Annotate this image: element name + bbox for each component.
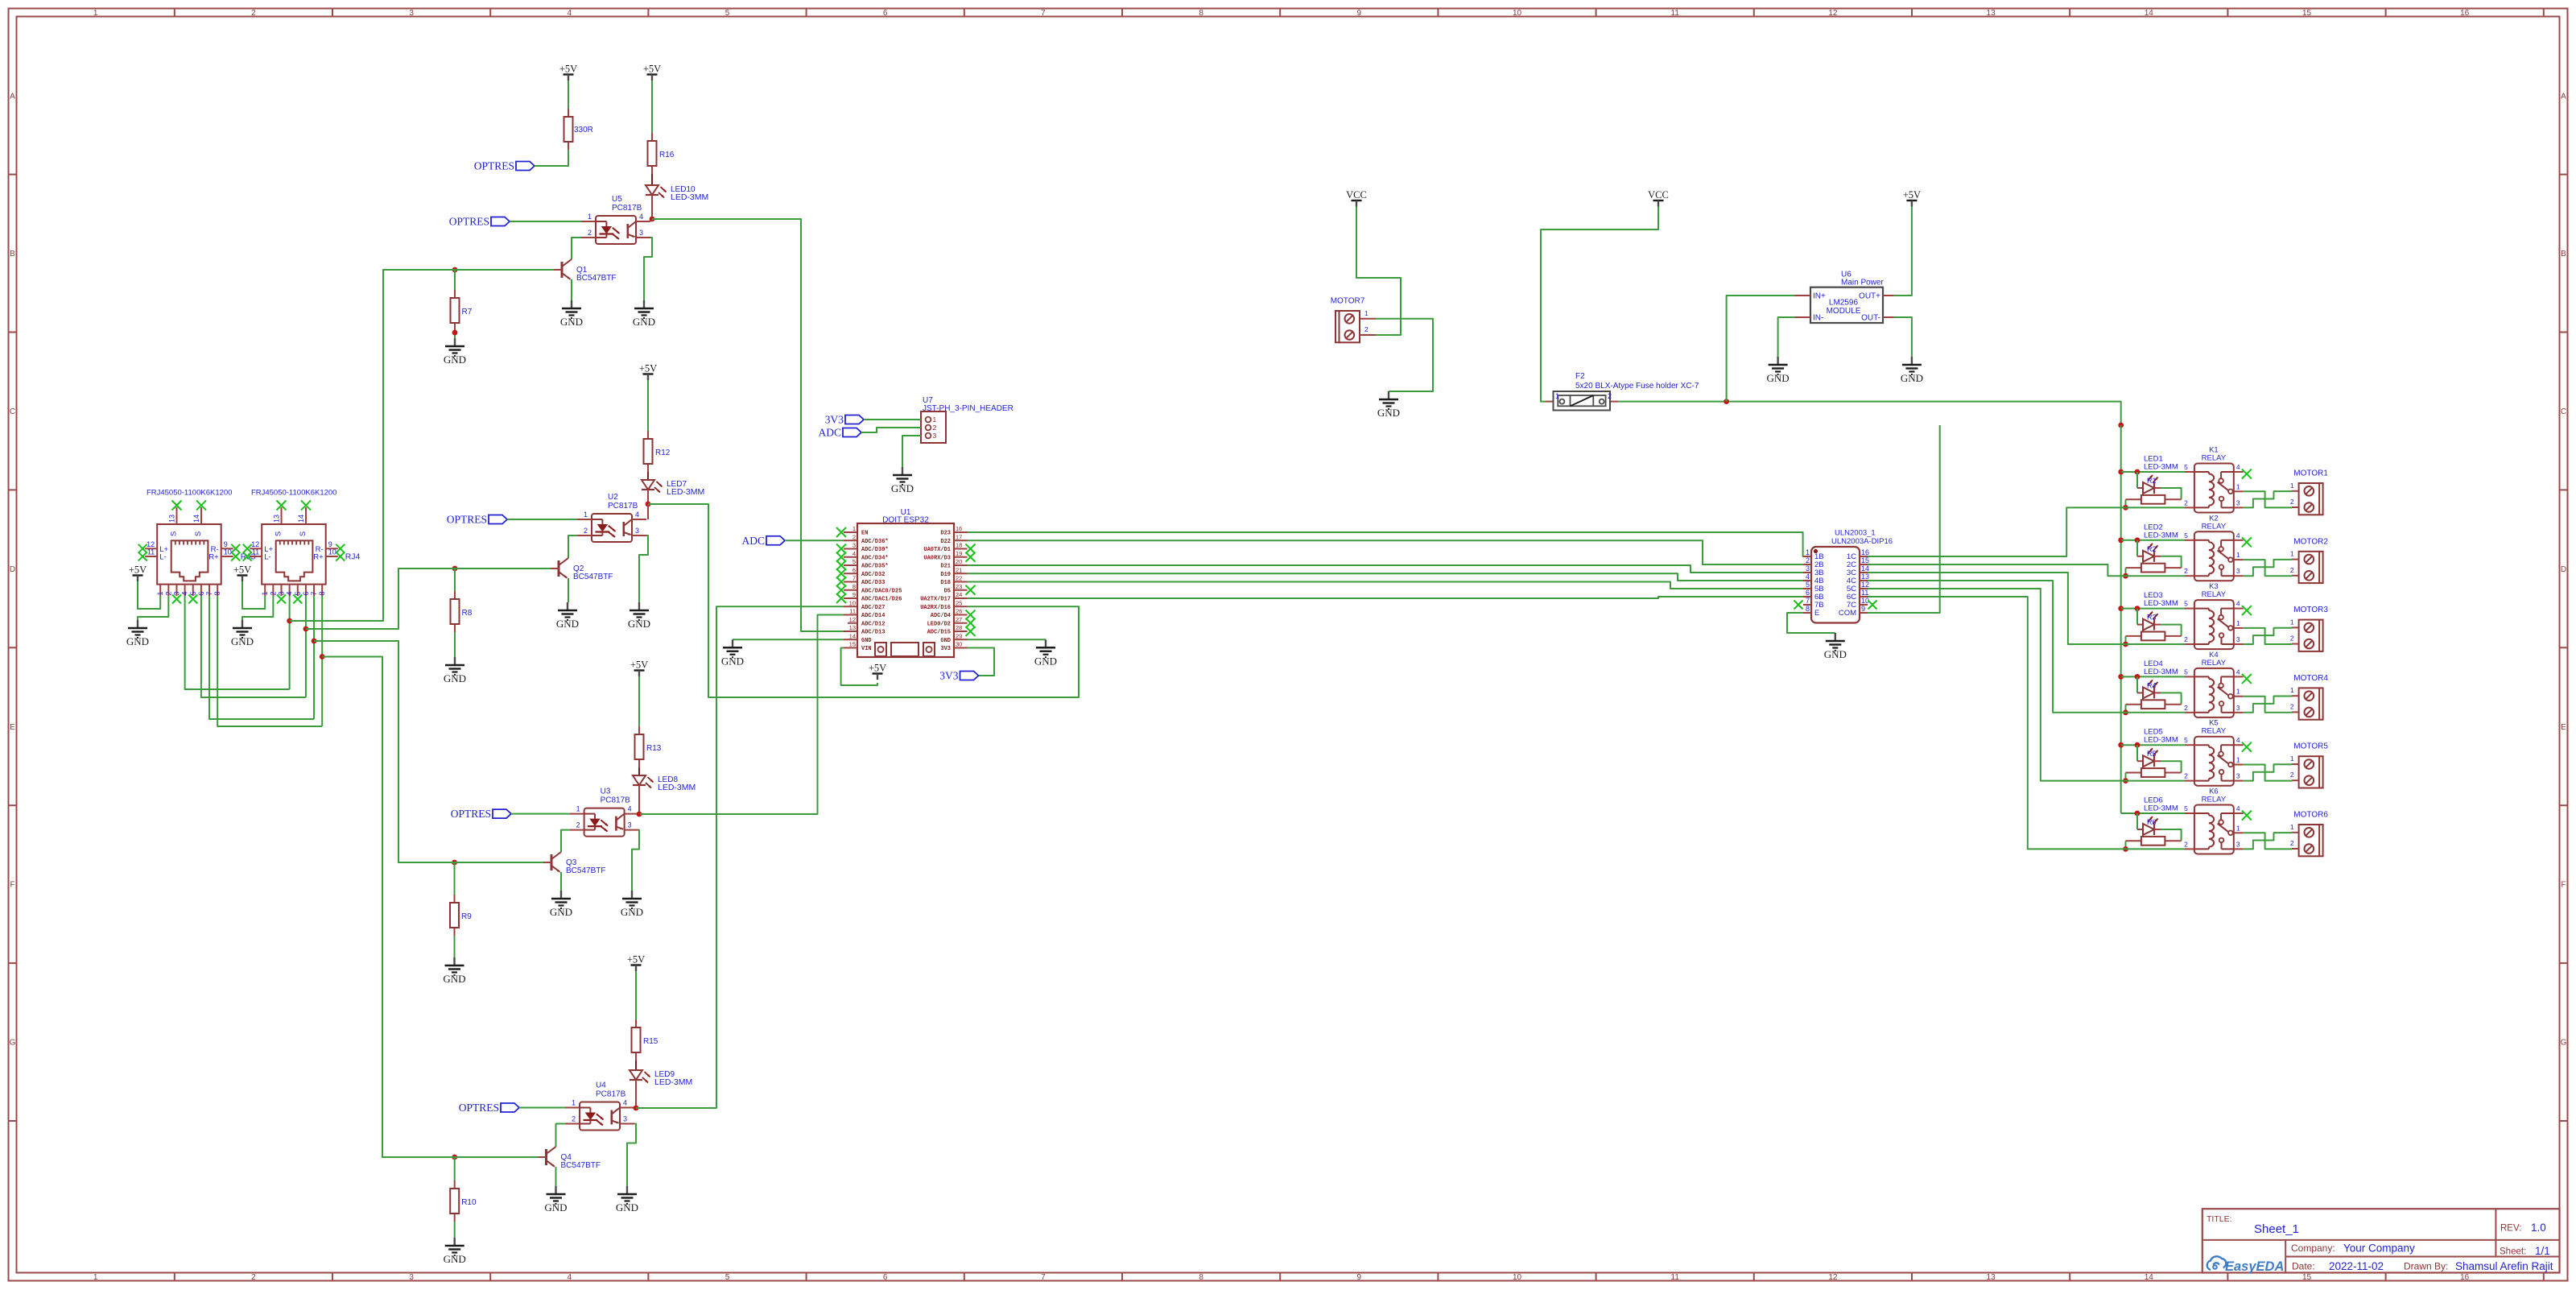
svg-text:OPTRES: OPTRES: [449, 216, 489, 228]
svg-text:9: 9: [1357, 9, 1362, 18]
svg-text:2: 2: [2290, 498, 2294, 506]
svg-text:S: S: [170, 531, 179, 536]
relay K3 RELAY: [2184, 582, 2252, 649]
svg-text:4: 4: [1806, 573, 1810, 581]
svg-text:Your Company: Your Company: [2343, 1242, 2415, 1255]
svg-text:GND: GND: [556, 618, 579, 630]
svg-text:GND: GND: [444, 354, 466, 366]
node rail row5: [2118, 742, 2124, 748]
svg-text:U2: U2: [608, 493, 618, 502]
svg-text:2: 2: [2290, 771, 2294, 779]
svg-text:1: 1: [1364, 309, 1368, 317]
connector MOTOR5: [2290, 742, 2328, 788]
wire: [638, 767, 640, 775]
ground (under R10): [444, 1238, 466, 1265]
wire: [454, 862, 456, 895]
svg-text:FRJ45050-1100K6K1200: FRJ45050-1100K6K1200: [251, 489, 337, 498]
resistor R13: [635, 726, 662, 767]
svg-text:OUT+: OUT+: [1859, 292, 1880, 301]
LED LED1 + resistor R1: [2123, 455, 2182, 511]
svg-text:5: 5: [294, 591, 302, 595]
svg-text:1: 1: [2290, 618, 2294, 626]
svg-text:EasyEDA: EasyEDA: [2225, 1259, 2284, 1274]
svg-text:4: 4: [181, 591, 189, 595]
svg-text:2: 2: [164, 591, 172, 595]
ground (ESP32 pin29): [1034, 639, 1057, 667]
svg-text:5: 5: [852, 558, 856, 565]
wire U6 OUT+ +5V: [1894, 207, 1912, 296]
svg-text:1: 1: [584, 511, 588, 519]
node Q3 base junction: [452, 860, 457, 866]
svg-text:5: 5: [2184, 668, 2188, 676]
wire: [561, 830, 570, 852]
resistor R7: [451, 290, 473, 331]
svg-text:GND: GND: [544, 1201, 567, 1214]
svg-text:10: 10: [224, 548, 232, 556]
svg-text:13: 13: [1987, 9, 1996, 18]
svg-text:10: 10: [1513, 9, 1522, 18]
svg-text:4: 4: [628, 805, 632, 813]
power VCC (main): [1541, 189, 1669, 402]
svg-text:16: 16: [956, 525, 962, 532]
svg-text:REV:: REV:: [2500, 1224, 2521, 1234]
svg-text:2: 2: [584, 527, 588, 535]
svg-text:LED-3MM: LED-3MM: [2144, 804, 2178, 813]
wire D23-1B: [968, 532, 1804, 556]
svg-text:14: 14: [297, 515, 305, 523]
wire U7 pin3 GND: [902, 436, 921, 467]
svg-text:12: 12: [1861, 581, 1869, 589]
svg-text:VCC: VCC: [1346, 189, 1367, 201]
svg-text:6: 6: [883, 9, 888, 18]
svg-text:9: 9: [852, 591, 856, 598]
svg-text:Date:: Date:: [2292, 1261, 2315, 1272]
svg-text:+5V: +5V: [630, 659, 648, 671]
relay K2 RELAY: [2184, 514, 2252, 581]
svg-text:GND: GND: [231, 635, 254, 647]
svg-text:2: 2: [2184, 704, 2188, 712]
svg-text:4: 4: [2236, 600, 2240, 608]
wire RJ3.4-RJ4.4: [185, 596, 290, 689]
wire U6 OUT- GND: [1894, 317, 1912, 357]
svg-text:11: 11: [147, 548, 155, 556]
svg-text:S: S: [299, 531, 308, 536]
svg-text:ADC/D39*: ADC/D39*: [861, 547, 889, 553]
svg-text:Company:: Company:: [2291, 1242, 2335, 1254]
connector RJ4 FRJ45050-1100K6K1200: [243, 489, 361, 604]
svg-text:GND: GND: [1377, 407, 1400, 419]
node U4 pin4 junction: [634, 1106, 639, 1111]
svg-text:LED-3MM: LED-3MM: [671, 192, 708, 202]
svg-text:GND: GND: [560, 316, 583, 328]
svg-text:GND: GND: [1034, 655, 1057, 667]
ground (RJ4): [231, 620, 254, 647]
wire K1.1-MOTOR1.2: [2244, 491, 2292, 507]
svg-text:E: E: [10, 723, 15, 732]
svg-text:ADC/DAC0/D25: ADC/DAC0/D25: [861, 588, 902, 594]
wire 3C-K3.2: [1868, 573, 2185, 644]
connector U7 JST-PH_3-PIN_HEADER: [921, 396, 1013, 443]
node U5 pin4 junction: [650, 217, 655, 222]
connector MOTOR3: [2290, 606, 2328, 651]
svg-text:UA0RX/D3: UA0RX/D3: [923, 555, 951, 561]
svg-text:A: A: [2561, 92, 2566, 101]
port ADC (ESP32 D36): [741, 535, 844, 547]
svg-text:3: 3: [277, 591, 285, 595]
svg-text:PC817B: PC817B: [601, 796, 631, 805]
power +5V (RJ4): [233, 564, 265, 610]
port OPTRES (U3 pin1): [451, 808, 570, 820]
wire row2 coil+ feed: [2121, 537, 2185, 543]
relay K5 RELAY: [2184, 719, 2252, 786]
svg-text:ADC/D33: ADC/D33: [861, 580, 885, 586]
svg-text:20: 20: [956, 558, 962, 565]
svg-text:LED-3MM: LED-3MM: [2144, 599, 2178, 608]
svg-text:2: 2: [1364, 325, 1368, 333]
svg-text:6: 6: [883, 1273, 888, 1282]
svg-text:5: 5: [2184, 600, 2188, 608]
port OPTRES (U4 pin1): [459, 1102, 565, 1114]
svg-text:9: 9: [224, 540, 228, 548]
svg-text:3: 3: [2236, 567, 2240, 575]
svg-text:14: 14: [192, 515, 200, 523]
svg-text:ADC/D27: ADC/D27: [861, 605, 885, 611]
wire: [242, 596, 273, 620]
wire RJ4.8-Q4 base: [320, 596, 539, 1157]
port 3V3 (U7): [825, 414, 921, 426]
svg-text:S: S: [194, 531, 203, 536]
svg-text:27: 27: [956, 616, 962, 623]
svg-text:F: F: [2561, 881, 2566, 890]
svg-text:4: 4: [623, 1099, 627, 1107]
wire 1C-K1.2: [1868, 507, 2185, 556]
svg-text:Main Power: Main Power: [1841, 279, 1884, 287]
power +5V (R16 chain): [643, 64, 661, 134]
LED LED9 LED-3MM: [630, 1070, 692, 1087]
svg-text:MOTOR1: MOTOR1: [2293, 469, 2328, 478]
wire F2-rail: [1618, 399, 2124, 428]
svg-text:MOTOR2: MOTOR2: [2293, 537, 2328, 546]
wire 2C-K2.2: [1868, 564, 2185, 576]
svg-text:R12: R12: [655, 449, 671, 457]
wire U4-D27: [636, 606, 844, 1108]
node Q4 base junction: [452, 1155, 457, 1160]
svg-text:4: 4: [286, 591, 294, 595]
svg-text:28: 28: [956, 624, 962, 631]
power +5V (330R): [559, 64, 577, 110]
svg-text:LED-3MM: LED-3MM: [667, 487, 704, 497]
svg-text:R4: R4: [2147, 681, 2157, 689]
wire row6 coil+ feed: [2121, 811, 2185, 817]
svg-text:RELAY: RELAY: [2202, 796, 2227, 804]
svg-text:GND: GND: [1767, 372, 1790, 384]
ground (U6 OUT-): [1901, 357, 1923, 384]
ground (under Q3): [550, 891, 572, 918]
wire COM-VCC rail: [1868, 425, 1940, 613]
svg-text:13: 13: [168, 515, 176, 523]
svg-text:R10: R10: [461, 1198, 477, 1207]
ground (U5 pin3): [633, 300, 655, 328]
svg-text:2: 2: [588, 229, 592, 237]
svg-text:15: 15: [2302, 9, 2312, 18]
svg-text:B: B: [10, 250, 15, 258]
svg-text:7: 7: [310, 591, 318, 595]
wire GND pin14: [733, 639, 844, 640]
svg-text:2: 2: [1608, 392, 1612, 400]
svg-text:E: E: [2561, 723, 2566, 732]
svg-text:14: 14: [1861, 564, 1869, 573]
svg-text:ADC/DAC1/D26: ADC/DAC1/D26: [861, 597, 902, 603]
svg-text:3: 3: [2236, 772, 2240, 780]
svg-text:23: 23: [956, 583, 962, 590]
svg-text:GND: GND: [721, 655, 744, 667]
svg-text:R2: R2: [2147, 545, 2157, 553]
svg-text:RELAY: RELAY: [2202, 727, 2227, 736]
ground (under Q4): [544, 1186, 567, 1214]
relay K6 RELAY: [2184, 788, 2252, 854]
svg-text:8: 8: [1199, 1273, 1203, 1282]
svg-text:1: 1: [156, 591, 164, 595]
svg-text:ADC: ADC: [818, 427, 841, 439]
svg-text:2: 2: [2290, 839, 2294, 847]
svg-text:L-: L-: [264, 553, 270, 562]
svg-text:+5V: +5V: [559, 64, 577, 75]
svg-text:+5V: +5V: [643, 64, 661, 75]
svg-text:COM: COM: [1839, 609, 1856, 618]
svg-text:GND: GND: [443, 973, 465, 985]
svg-text:1: 1: [588, 213, 592, 221]
svg-text:5: 5: [2184, 804, 2188, 812]
svg-text:5: 5: [189, 591, 197, 595]
wire D18-5B: [968, 582, 1804, 589]
svg-text:3V3: 3V3: [939, 670, 958, 682]
svg-text:G: G: [2561, 1039, 2567, 1048]
wire D19-4B: [968, 573, 1804, 581]
svg-text:3V3: 3V3: [825, 414, 844, 426]
power +5V (U6 OUT+): [1903, 189, 1921, 207]
svg-text:D21: D21: [940, 564, 951, 570]
ground (U4 pin3): [616, 1186, 638, 1214]
svg-text:R15: R15: [643, 1037, 658, 1046]
svg-text:7: 7: [852, 575, 856, 582]
svg-text:29: 29: [956, 632, 962, 639]
wire: [454, 1222, 456, 1238]
svg-text:R3: R3: [2147, 614, 2157, 622]
wire: [651, 174, 653, 185]
svg-text:11: 11: [849, 608, 856, 615]
wire K3.3-MOTOR3.1: [2244, 628, 2292, 644]
svg-text:S: S: [275, 531, 283, 536]
LED LED5 + resistor R5: [2123, 728, 2182, 784]
svg-text:25: 25: [956, 599, 962, 606]
wire RJ4.4-Q1 base: [287, 270, 554, 689]
svg-text:1: 1: [1555, 392, 1559, 400]
svg-text:1: 1: [2290, 755, 2294, 763]
svg-text:1: 1: [2290, 686, 2294, 694]
svg-text:12: 12: [849, 616, 856, 623]
svg-text:11: 11: [1671, 1273, 1680, 1282]
svg-text:7: 7: [1041, 9, 1046, 18]
svg-text:PC817B: PC817B: [596, 1090, 626, 1099]
wire row3 coil+ feed: [2121, 606, 2185, 611]
svg-text:17: 17: [956, 533, 962, 540]
LED LED2 + resistor R2: [2123, 523, 2182, 578]
svg-text:2: 2: [933, 424, 937, 432]
wire RJ4.6-Q2 base: [303, 569, 551, 697]
wire U6 IN- GND: [1778, 317, 1795, 357]
svg-text:2: 2: [2184, 840, 2188, 848]
svg-text:3: 3: [2236, 704, 2240, 712]
wire: [644, 238, 652, 300]
wire: [638, 785, 640, 814]
LED LED8 LED-3MM: [633, 775, 696, 792]
svg-text:2: 2: [2184, 498, 2188, 506]
svg-text:R1: R1: [2147, 477, 2157, 485]
svg-text:GND: GND: [616, 1201, 638, 1214]
svg-text:1: 1: [93, 9, 98, 18]
svg-text:18: 18: [956, 542, 962, 549]
svg-text:1/1: 1/1: [2535, 1245, 2550, 1257]
svg-text:2: 2: [251, 1273, 256, 1282]
port 3V3 (ESP32): [939, 670, 978, 682]
svg-text:5x20 BLX-Atype Fuse holder XC-: 5x20 BLX-Atype Fuse holder XC-7: [1575, 382, 1699, 391]
svg-text:+5V: +5V: [627, 954, 645, 965]
resistor R15: [632, 1019, 658, 1061]
svg-text:+5V: +5V: [639, 363, 657, 374]
svg-text:VIN: VIN: [861, 646, 872, 652]
optocoupler U3 PC817B: [570, 788, 639, 837]
svg-text:1: 1: [576, 805, 580, 813]
svg-text:D22: D22: [940, 539, 951, 545]
node U3 pin4 junction: [637, 812, 642, 817]
svg-text:GND: GND: [891, 482, 914, 494]
svg-text:8: 8: [1199, 9, 1203, 18]
svg-text:MODULE: MODULE: [1827, 307, 1861, 316]
svg-text:2: 2: [2184, 635, 2188, 643]
wire U2-D16: [648, 504, 1079, 697]
svg-text:BC547BTF: BC547BTF: [561, 1161, 601, 1170]
svg-text:2: 2: [2290, 702, 2294, 710]
svg-text:19: 19: [956, 550, 962, 557]
svg-text:3: 3: [2236, 840, 2240, 848]
svg-text:1: 1: [2236, 824, 2240, 832]
svg-text:MOTOR3: MOTOR3: [2293, 606, 2328, 614]
svg-text:16: 16: [2460, 9, 2470, 18]
svg-text:GND: GND: [126, 635, 149, 647]
resistor R12: [644, 431, 671, 472]
svg-text:3: 3: [409, 9, 414, 18]
svg-text:R16: R16: [659, 151, 675, 159]
svg-text:5: 5: [725, 1273, 730, 1282]
svg-text:4: 4: [2236, 531, 2240, 540]
svg-text:4: 4: [639, 213, 643, 221]
port OPTRES (U2 pin1): [447, 514, 577, 526]
driver ULN2003_1 ULN2003A-DIP16: [1794, 529, 1893, 623]
svg-text:LED-3MM: LED-3MM: [658, 783, 696, 792]
svg-text:D: D: [2561, 565, 2566, 574]
svg-text:1: 1: [2236, 619, 2240, 627]
svg-text:RELAY: RELAY: [2202, 590, 2227, 599]
svg-text:MOTOR5: MOTOR5: [2293, 742, 2328, 751]
node rail row2: [2118, 537, 2124, 543]
svg-text:3V3: 3V3: [940, 646, 951, 652]
svg-text:GND: GND: [444, 672, 466, 684]
svg-text:PC817B: PC817B: [612, 204, 642, 213]
wire D17-6B: [968, 597, 1804, 598]
svg-text:12: 12: [251, 540, 259, 548]
svg-text:26: 26: [956, 608, 962, 615]
wire: [454, 569, 456, 591]
node rail row3: [2118, 606, 2124, 611]
wire U5-D13: [652, 219, 844, 631]
svg-text:3: 3: [635, 527, 639, 535]
optocoupler U5 PC817B: [581, 195, 650, 244]
svg-text:D18: D18: [940, 580, 951, 586]
connector MOTOR2: [2290, 537, 2328, 583]
svg-text:MOTOR6: MOTOR6: [2293, 811, 2328, 820]
resistor R10: [450, 1180, 477, 1222]
svg-text:LED-3MM: LED-3MM: [2144, 531, 2178, 540]
svg-text:10: 10: [328, 548, 336, 556]
ground (MOTOR7): [1377, 391, 1400, 419]
svg-text:1: 1: [2236, 756, 2240, 764]
svg-text:U3: U3: [601, 788, 611, 796]
svg-text:13: 13: [849, 624, 856, 631]
svg-text:R+: R+: [208, 553, 219, 562]
wire: [555, 1167, 557, 1186]
svg-text:F2: F2: [1575, 372, 1585, 381]
svg-text:16: 16: [2460, 1273, 2470, 1282]
svg-text:16: 16: [1861, 548, 1869, 556]
svg-text:4: 4: [2236, 804, 2240, 812]
svg-text:MOTOR7: MOTOR7: [1331, 297, 1365, 306]
svg-text:Shamsul Arefin Rajit: Shamsul Arefin Rajit: [2455, 1260, 2553, 1272]
wire VCC rail: [2120, 425, 2122, 813]
wire RJ4.7-Q3 base: [312, 596, 543, 862]
svg-text:3: 3: [623, 1115, 627, 1123]
svg-text:6: 6: [852, 566, 856, 573]
svg-text:3: 3: [628, 821, 632, 829]
node U2 pin4 junction: [646, 502, 651, 519]
wire: [627, 1124, 636, 1187]
wire K1.3-MOTOR1.1: [2244, 491, 2292, 507]
power +5V (R12 chain): [639, 363, 657, 432]
svg-text:30: 30: [956, 641, 962, 648]
svg-text:C: C: [2561, 407, 2566, 416]
transistor Q3 BC547BTF: [543, 852, 605, 875]
svg-text:RELAY: RELAY: [2202, 522, 2227, 531]
svg-text:4: 4: [635, 511, 639, 519]
wire F2-IN+: [1727, 296, 1795, 402]
svg-text:PC817B: PC817B: [608, 502, 638, 511]
port ADC (U7): [818, 427, 921, 439]
wire K6.1-MOTOR6.2: [2244, 833, 2292, 849]
ground (ESP32 pin14): [721, 639, 744, 667]
wire: [454, 936, 456, 957]
svg-text:1: 1: [933, 416, 937, 424]
LED LED10 LED-3MM: [646, 185, 708, 202]
svg-text:OPTRES: OPTRES: [459, 1102, 499, 1114]
power +5V (R15 chain): [627, 954, 645, 1020]
svg-text:OPTRES: OPTRES: [447, 514, 487, 526]
transistor Q1 BC547BTF: [554, 259, 616, 283]
svg-text:2: 2: [576, 821, 580, 829]
svg-text:10: 10: [849, 599, 856, 606]
wire: [454, 632, 456, 657]
svg-text:4: 4: [568, 1273, 572, 1282]
svg-text:6: 6: [197, 591, 205, 595]
svg-text:1.0: 1.0: [2531, 1222, 2546, 1234]
